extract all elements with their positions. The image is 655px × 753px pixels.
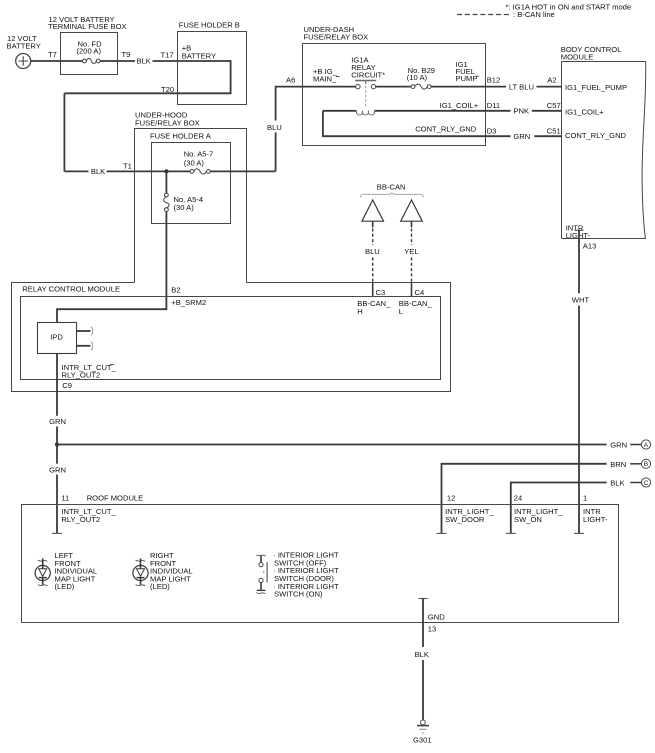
svg-text:FUSE/RELAY BOX: FUSE/RELAY BOX [135, 118, 200, 127]
svg-text:BATTERY: BATTERY [182, 51, 216, 60]
wire B29 to B12 [431, 86, 485, 88]
roof module box [22, 494, 619, 623]
svg-text:(200 A): (200 A) [77, 46, 102, 55]
svg-text:CIRCUIT*: CIRCUIT* [351, 71, 385, 80]
svg-text:A2: A2 [547, 76, 556, 85]
svg-text:T1: T1 [123, 162, 132, 171]
svg-text:PUMP: PUMP [456, 74, 478, 83]
switch interior light [256, 555, 267, 594]
svg-text:+B_SRM2: +B_SRM2 [171, 298, 206, 307]
relay coil IG1A [323, 111, 486, 115]
wire BLU riser to A6 [267, 87, 302, 172]
node T1 [123, 162, 132, 171]
svg-text:GND: GND [428, 613, 445, 622]
node T9 [122, 50, 131, 59]
svg-text:LIGHT-: LIGHT- [583, 515, 608, 524]
svg-text:BB-CAN_: BB-CAN_ [399, 299, 433, 308]
wire A5-7 to BLU riser [210, 170, 275, 172]
junction dot GRN [55, 442, 59, 446]
svg-text:24: 24 [514, 494, 522, 503]
node T20 [161, 85, 174, 94]
svg-text:(30 A): (30 A) [184, 159, 205, 168]
svg-text:BLK: BLK [610, 479, 624, 488]
label interior light switch [273, 551, 339, 599]
svg-text:A13: A13 [583, 242, 597, 251]
relay control module outer box [12, 283, 451, 392]
svg-text:IG1_COIL+: IG1_COIL+ [565, 108, 604, 117]
connector circle C [641, 478, 650, 487]
svg-text:(LED): (LED) [150, 582, 170, 591]
svg-text:IG1_FUEL_PUMP: IG1_FUEL_PUMP [565, 83, 627, 92]
wire B12 to A2, LT BLU [486, 76, 562, 92]
label left lamp [55, 551, 98, 591]
BB-CAN label and brace [360, 183, 423, 198]
svg-text:B12: B12 [487, 76, 501, 85]
connector circle A [641, 440, 650, 449]
svg-text:MODULE: MODULE [561, 52, 594, 61]
IPD unit [38, 323, 77, 354]
ground G301 [413, 720, 432, 744]
wire T9 to T17, BLK [100, 57, 178, 66]
svg-text:T9: T9 [122, 50, 131, 59]
svg-text:C51: C51 [547, 126, 561, 135]
wire BLK to C [511, 479, 642, 534]
wire B2 drop [57, 212, 166, 323]
wire battery to fuse box [31, 60, 61, 62]
wire GRN drop from IPD [49, 354, 66, 534]
svg-text:T17: T17 [161, 51, 174, 60]
svg-text:CONT_RLY_GND: CONT_RLY_GND [415, 125, 477, 134]
svg-text:SW_ON: SW_ON [514, 515, 542, 524]
svg-text:C3: C3 [376, 288, 386, 297]
svg-text:IPD: IPD [50, 332, 63, 341]
svg-text:C: C [644, 480, 649, 487]
dashed wire BLU [365, 229, 380, 297]
under-hood fuse/relay box [135, 111, 247, 283]
svg-text:No. A5-7: No. A5-7 [184, 149, 214, 158]
pin 13 GND [419, 599, 446, 634]
body control module box [561, 45, 646, 239]
svg-text:D11: D11 [487, 101, 500, 110]
svg-text:A: A [644, 442, 649, 449]
12 volt battery terminal fuse box [48, 15, 127, 75]
pin 24 INTR_LIGHT_SW_ON [506, 494, 564, 534]
node C3 [357, 288, 391, 316]
pin INTR_LT_CUT_RLY_OUT2 [62, 363, 117, 380]
svg-text:T20: T20 [161, 85, 174, 94]
svg-text:CONT_RLY_GND: CONT_RLY_GND [565, 131, 627, 140]
svg-text:1: 1 [583, 494, 587, 503]
pin IG1_FUEL_PUMP [565, 83, 627, 92]
relay IG1A contact [351, 56, 385, 89]
pin 11 INTR_LT_CUT_RLY_OUT2 [52, 507, 116, 534]
svg-text:SW_DOOR: SW_DOOR [445, 515, 485, 524]
wire inside fuse holder B, T17 to T20 [64, 61, 230, 93]
wire D3 to C51, GRN [486, 126, 562, 141]
wire WHT [572, 239, 590, 533]
legend dashed B-CAN sample line [457, 10, 555, 19]
pin CONT_RLY_GND [415, 125, 477, 134]
svg-text:(30 A): (30 A) [174, 203, 195, 212]
fuse No.B29 (10A) [407, 66, 435, 89]
wire main row in under-dash [302, 86, 411, 88]
svg-text:C9: C9 [62, 381, 72, 390]
connector arrow BB-CAN H [362, 200, 384, 228]
wire BRN to B [442, 460, 642, 533]
connector circle B [641, 459, 650, 468]
svg-text:13: 13 [428, 625, 436, 634]
under-dash fuse/relay box [303, 25, 486, 146]
wire coil return to D3 [323, 111, 486, 136]
svg-text:MAIN_: MAIN_ [313, 75, 337, 84]
svg-text:ROOF MODULE: ROOF MODULE [87, 494, 144, 503]
svg-text:BLU: BLU [365, 247, 380, 256]
fuse No.A5-4 (30A) vertical [164, 173, 203, 212]
svg-text:BB-CAN: BB-CAN [377, 183, 406, 192]
note: IG1A legend [506, 3, 632, 12]
svg-text:C57: C57 [547, 101, 561, 110]
svg-text:L: L [399, 307, 403, 316]
svg-text:G301: G301 [413, 735, 432, 744]
svg-text:B2: B2 [171, 286, 180, 295]
svg-text:TERMINAL FUSE BOX: TERMINAL FUSE BOX [48, 22, 127, 31]
svg-text:T7: T7 [48, 50, 57, 59]
svg-text:GRN: GRN [49, 465, 66, 474]
pin 12 INTR_LIGHT_SW_DOOR [437, 494, 495, 534]
pin CONT_RLY_GND [565, 131, 627, 140]
battery symbol [16, 54, 31, 69]
label right lamp [150, 551, 193, 591]
pin INTR LIGHT- [566, 223, 591, 240]
svg-text:: B-CAN line: : B-CAN line [513, 10, 555, 19]
IPD output stub 1 [77, 327, 93, 335]
node C9 [62, 381, 72, 390]
pin +B IG_MAIN [313, 67, 340, 84]
relay dashed actuator line [365, 86, 367, 109]
wire BLK to ground [415, 599, 429, 721]
svg-text:C4: C4 [415, 288, 425, 297]
battery 12V label [7, 34, 41, 51]
dashed wire YEL [404, 229, 418, 297]
node A6 [286, 76, 295, 85]
svg-text:FUSE HOLDER B: FUSE HOLDER B [179, 21, 240, 30]
svg-text:12: 12 [447, 494, 455, 503]
svg-text:RLY_OUT2: RLY_OUT2 [61, 515, 100, 524]
svg-text:BLK: BLK [415, 650, 429, 659]
svg-text:YEL: YEL [404, 247, 418, 256]
node T17 [161, 51, 174, 60]
lamp left front map light [35, 559, 50, 586]
svg-text:BLU: BLU [267, 123, 282, 132]
svg-text:BLK: BLK [91, 167, 105, 176]
svg-text:IG1_COIL+: IG1_COIL+ [440, 101, 479, 110]
fuse holder B box [178, 21, 247, 105]
svg-text:BRN: BRN [610, 460, 626, 469]
pin IG1_COIL+ [440, 101, 479, 110]
svg-text:H: H [357, 307, 362, 316]
svg-text:GRN: GRN [610, 441, 627, 450]
svg-text:(LED): (LED) [55, 582, 75, 591]
pin IG1_COIL+ [565, 108, 604, 117]
svg-text:GRN: GRN [513, 132, 530, 141]
svg-text:RELAY CONTROL MODULE: RELAY CONTROL MODULE [22, 285, 120, 294]
svg-text:D3: D3 [487, 126, 497, 135]
node A13 [583, 242, 597, 251]
pin IG1 FUEL PUMP [456, 60, 480, 83]
connector arrow BB-CAN L [401, 200, 423, 228]
svg-text:B: B [644, 461, 648, 468]
node T7 [48, 50, 57, 59]
svg-text:SWITCH (ON): SWITCH (ON) [274, 590, 323, 599]
wire GRN horizontal to A [57, 441, 641, 450]
svg-text:A6: A6 [286, 76, 295, 85]
svg-text:(10 A): (10 A) [407, 73, 428, 82]
wire left drop to T1 [64, 93, 190, 176]
fuse holder A box [150, 132, 231, 224]
pin 1 INTR LIGHT- [574, 494, 608, 534]
junction dot T1 node [164, 169, 168, 173]
fuse No.A5-7 (30A) [184, 149, 214, 174]
IPD output stub 2 [77, 342, 93, 350]
svg-text:GRN: GRN [49, 417, 66, 426]
svg-text:BLK: BLK [137, 57, 151, 66]
wire D11 to C57, PNK [486, 101, 562, 116]
svg-text:RLY_OUT2: RLY_OUT2 [62, 371, 101, 380]
relay control module inner box [21, 297, 441, 380]
svg-text:FUSE/RELAY BOX: FUSE/RELAY BOX [304, 33, 369, 42]
svg-text:FUSE HOLDER A: FUSE HOLDER A [150, 132, 212, 141]
svg-text:11: 11 [61, 494, 69, 503]
svg-text:WHT: WHT [572, 295, 590, 304]
svg-text:BATTERY: BATTERY [7, 42, 41, 51]
node C4 [399, 288, 433, 316]
lamp right front map light [133, 559, 148, 586]
svg-text:PNK: PNK [513, 107, 529, 116]
node B2 [171, 286, 206, 308]
svg-text:LT BLU: LT BLU [509, 82, 534, 91]
fuse No.FD (200 A) [61, 39, 103, 63]
